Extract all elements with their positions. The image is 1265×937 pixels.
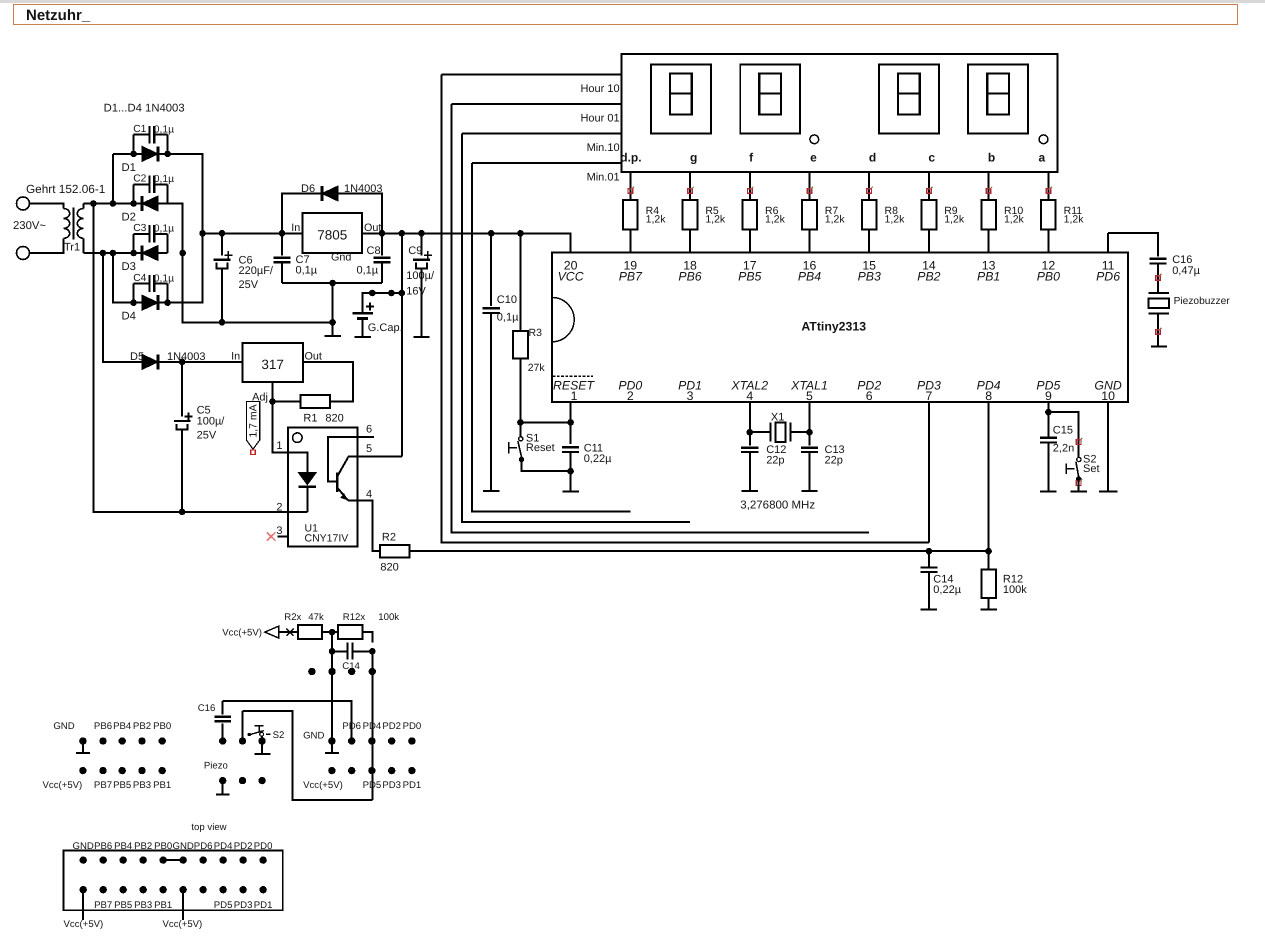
svg-text:GND: GND: [303, 730, 324, 741]
junction C10: [488, 230, 495, 237]
wire row D1: [134, 153, 168, 155]
svg-text:3: 3: [276, 525, 282, 537]
wire PD3 to bus: [928, 402, 930, 542]
junction 7805 output: [379, 230, 386, 237]
svg-text:C2: C2: [133, 174, 146, 185]
ground symbol S2: [1071, 479, 1087, 491]
capacitor C16 0,47µ: [1149, 254, 1200, 293]
wire bridge plus bus (D1/D4 cathodes): [168, 154, 203, 303]
capacitor C5 100µ/25V: [174, 362, 225, 512]
ground symbol piezo: [1151, 346, 1167, 348]
svg-text:G.Cap.: G.Cap.: [368, 322, 403, 334]
diode D5 1N4003: [130, 351, 242, 370]
svg-text:8: 8: [985, 389, 992, 403]
wire GND pin: [1107, 402, 1109, 491]
svg-text:D1...D4 1N4003: D1...D4 1N4003: [104, 103, 185, 115]
junction AC1-bus: [90, 200, 97, 207]
display dp circle right: [1039, 135, 1048, 144]
pin 17 PB5: [738, 259, 761, 284]
junction D5-C5: [179, 359, 186, 366]
opto pin 1 label: [276, 440, 282, 452]
top view labels lower PD: [214, 900, 273, 911]
wire AC2 rail: [84, 252, 142, 254]
svg-text:c: c: [928, 151, 935, 165]
connector mark piezo+: [1156, 274, 1162, 281]
svg-text:C16: C16: [198, 703, 216, 714]
pin 15 PB3: [858, 259, 881, 284]
svg-text:D4: D4: [122, 311, 136, 323]
wire display segment column c: [928, 172, 930, 252]
wire C14x right to PD5 pad: [371, 651, 373, 800]
svg-text:5: 5: [806, 389, 813, 403]
svg-text:4: 4: [746, 389, 753, 403]
wire PD2 bus: [451, 104, 869, 532]
svg-text:4: 4: [366, 489, 372, 501]
svg-text:PB3: PB3: [134, 900, 152, 911]
top gray strip: [0, 0, 1265, 3]
junction gnd rail: [329, 319, 336, 326]
svg-text:VCC: VCC: [558, 270, 584, 284]
svg-text:e: e: [810, 151, 817, 165]
connector mark d.p.: [628, 187, 634, 194]
connector mark b: [986, 187, 992, 194]
wire display segment column f: [749, 172, 751, 252]
label D1...D4 1N4003: [104, 103, 185, 115]
svg-text:Hour 10: Hour 10: [580, 83, 619, 95]
svg-text:D2: D2: [122, 212, 136, 224]
pin 9 PD5: [1036, 379, 1060, 404]
svg-text:PB3: PB3: [858, 270, 881, 284]
svg-text:820: 820: [325, 412, 343, 424]
svg-text:PB1: PB1: [154, 900, 172, 911]
label R12x 100k: [343, 612, 400, 623]
svg-text:Netzuhr_: Netzuhr_: [26, 7, 91, 24]
junction AC2-left: [100, 250, 107, 257]
transformer Tr1: [64, 204, 84, 254]
wire digit select Min.01: [472, 162, 622, 164]
PB header pads bottom: [79, 767, 166, 774]
svg-text:1,2k: 1,2k: [646, 214, 667, 226]
junction goldcap b: [388, 290, 395, 297]
svg-text:Gehrt 152.06-1: Gehrt 152.06-1: [26, 182, 105, 196]
IC U2 ATtiny2313: [552, 253, 1128, 403]
top view connector body: [63, 851, 282, 911]
resistor R2 820: [380, 532, 409, 574]
switch S2 (layout): [243, 711, 285, 741]
wire junction to C14x: [331, 632, 333, 651]
wire PD3 bus: [441, 74, 929, 542]
diode D2 1N4003: [122, 196, 159, 224]
junction C14 node: [926, 548, 933, 555]
wire regulator ground rail: [282, 283, 382, 322]
wire display segment column e: [808, 172, 810, 252]
svg-text:820: 820: [380, 562, 398, 574]
opto pin 4 wire: [348, 489, 380, 552]
svg-text:PD5: PD5: [214, 900, 233, 911]
svg-text:top view: top view: [191, 822, 226, 833]
resistor R8 1,2k: [862, 200, 905, 229]
svg-text:1: 1: [571, 389, 578, 403]
wire 317 adj: [273, 382, 301, 452]
connector mark S2 top: [1076, 438, 1082, 445]
svg-text:0,47µ: 0,47µ: [1172, 265, 1200, 277]
wire bridge AC bus D1-D2: [113, 154, 134, 204]
pin 16 PB4: [798, 259, 821, 284]
svg-text:g: g: [690, 151, 697, 165]
wire display segment column a: [1047, 172, 1049, 252]
junction R2x-R12x: [322, 629, 338, 636]
wire raw supply rail: [203, 233, 571, 252]
svg-text:Piezobuzzer: Piezobuzzer: [1174, 296, 1231, 307]
pin 7 PD3: [917, 379, 941, 404]
top view pads upper: [80, 856, 267, 863]
svg-text:1,2k: 1,2k: [765, 214, 786, 226]
wire PD1 bus: [462, 134, 690, 522]
pin 20 VCC: [558, 259, 584, 284]
svg-text:1,7 mA: 1,7 mA: [247, 404, 259, 437]
junction AC2-bridge: [110, 250, 117, 257]
svg-text:PD6: PD6: [1096, 270, 1120, 284]
svg-text:Vcc(+5V): Vcc(+5V): [43, 780, 83, 791]
capacitor C4 0,1µ (snubber of D4): [133, 273, 174, 303]
svg-text:In: In: [291, 222, 300, 234]
opto LED: [288, 452, 318, 512]
resistor R11 1,2k: [1041, 200, 1084, 229]
svg-text:R2: R2: [382, 532, 396, 544]
top view pads lower: [80, 886, 267, 893]
resistor R2x: [298, 625, 322, 639]
svg-text:22p: 22p: [825, 454, 843, 466]
labels PD6 PD4 PD2 PD0: [342, 721, 421, 732]
connector mark a: [1046, 187, 1052, 194]
pin 3 PD1: [678, 379, 702, 404]
wire PD0 bus: [472, 163, 630, 512]
junction C6: [219, 230, 226, 237]
connector mark d: [867, 187, 873, 194]
svg-text:PD4: PD4: [363, 721, 382, 732]
wire digit select Min.10: [462, 133, 622, 135]
capacitor C10 0,1µ: [483, 233, 519, 491]
label Hour 10: [580, 83, 619, 95]
svg-text:C4: C4: [133, 273, 146, 284]
labels PB7 PB5 PB3 PB1: [94, 780, 171, 791]
junction C5 gnd node: [179, 509, 186, 516]
svg-text:Piezo: Piezo: [204, 761, 228, 772]
pin 19 PB7: [619, 259, 643, 284]
wire display segment column g: [689, 172, 691, 252]
svg-text:PB1: PB1: [977, 270, 1000, 284]
svg-text:PB5: PB5: [113, 780, 131, 791]
capacitor C8 0,1µ: [357, 233, 391, 283]
junction C14x right: [369, 648, 376, 655]
connector mark S2 bottom: [1076, 479, 1082, 486]
svg-text:PD2: PD2: [382, 721, 401, 732]
svg-text:230V~: 230V~: [13, 220, 46, 232]
wire R2 to PD4 node: [409, 550, 988, 552]
PD header pads bottom: [328, 767, 415, 774]
svg-text:X1: X1: [771, 411, 784, 423]
capacitor C14 (layout): [332, 643, 372, 672]
svg-text:0,1µ: 0,1µ: [357, 265, 379, 277]
svg-text:PB0: PB0: [1037, 270, 1060, 284]
capacitor C9 100µ/16V: [406, 233, 435, 336]
junction R12 node: [985, 548, 992, 555]
junction XTAL1: [806, 429, 813, 436]
diode D1 1N4003: [122, 146, 159, 174]
label C16 (layout): [198, 703, 216, 714]
svg-text:7805: 7805: [317, 227, 347, 242]
svg-text:PD1: PD1: [403, 780, 422, 791]
svg-text:Reset: Reset: [526, 442, 555, 454]
svg-text:R1: R1: [303, 412, 317, 424]
svg-text:PB2: PB2: [133, 721, 151, 732]
junction R3: [517, 230, 524, 237]
svg-text:0,22µ: 0,22µ: [584, 453, 612, 465]
capacitor C14 0,22µ: [920, 551, 961, 609]
svg-text:D6: D6: [301, 183, 315, 195]
wire S2 loop to PD5 pad: [243, 711, 373, 800]
crystal X1: [750, 411, 810, 442]
svg-text:D1: D1: [122, 162, 136, 174]
svg-text:R3: R3: [529, 327, 543, 339]
svg-text:6: 6: [866, 389, 873, 403]
wire 317 out to R1: [303, 362, 353, 402]
connector mark f: [747, 187, 753, 194]
wire AC2 to D5: [103, 253, 142, 362]
svg-text:2: 2: [276, 502, 282, 514]
wire display segment column d: [868, 172, 870, 252]
ground symbol 7805 gnd: [324, 322, 340, 336]
svg-text:7: 7: [925, 389, 932, 403]
top view Vcc stub right: [163, 890, 203, 930]
wire bridge AC bus D3-D4: [113, 253, 134, 303]
svg-text:100µ/: 100µ/: [197, 415, 226, 427]
connector mark c: [927, 187, 933, 194]
svg-text:25V: 25V: [239, 279, 259, 291]
svg-text:PB5: PB5: [114, 900, 132, 911]
svg-text:Tr1: Tr1: [64, 242, 80, 254]
resistor R1 820: [300, 395, 343, 424]
svg-text:D5: D5: [130, 351, 144, 363]
regulator 7805: [291, 213, 381, 264]
svg-text:ATtiny2313: ATtiny2313: [801, 319, 866, 333]
junction C14x left: [329, 648, 336, 655]
diode D6 1N4003 (bypass): [282, 183, 383, 234]
svg-text:Vcc(+5V): Vcc(+5V): [163, 919, 203, 930]
svg-text:1N4003: 1N4003: [344, 183, 383, 195]
svg-text:1,2k: 1,2k: [1004, 214, 1025, 226]
label Vcc(+5V) (PD block): [303, 780, 343, 791]
svg-text:Out: Out: [364, 222, 381, 234]
resistor R7 1,2k: [802, 200, 845, 229]
capacitor C6 220µF/25V: [214, 233, 274, 322]
svg-text:C15: C15: [1053, 425, 1073, 437]
title frame: [14, 5, 1238, 25]
svg-text:0,22µ: 0,22µ: [933, 584, 961, 596]
svg-text:Gnd: Gnd: [331, 252, 351, 264]
svg-text:PB5: PB5: [738, 270, 761, 284]
wire digit select Hour 10: [441, 73, 621, 75]
junction AC1-bridge: [110, 200, 117, 207]
svg-text:Set: Set: [1083, 463, 1100, 475]
optocoupler U1 CNY17IV body: [288, 427, 358, 546]
svg-text:a: a: [1038, 151, 1045, 165]
wire primary top: [30, 204, 64, 209]
junction +9V branch: [399, 230, 406, 237]
svg-text:3,276800 MHz: 3,276800 MHz: [740, 500, 815, 512]
svg-text:100k: 100k: [1003, 584, 1027, 596]
pad row upper: [308, 668, 376, 675]
svg-text:1N4003: 1N4003: [167, 351, 206, 363]
svg-text:0,1µ: 0,1µ: [154, 174, 174, 185]
pin 14 PB2: [917, 259, 940, 284]
svg-text:R2x: R2x: [284, 612, 301, 623]
svg-text:47k: 47k: [308, 612, 324, 623]
junction goldcap c: [399, 290, 406, 297]
svg-text:10: 10: [1101, 389, 1115, 403]
capacitor C1 0,1µ (snubber of D1): [133, 124, 174, 154]
svg-text:In: In: [231, 351, 240, 363]
svg-text:1,2k: 1,2k: [705, 214, 726, 226]
wire PD5 node: [1048, 402, 1078, 458]
top view labels lower PB: [94, 900, 172, 911]
middle pad row (GND..): [219, 737, 266, 744]
capacitor C7 0,1µ: [274, 233, 318, 283]
resistor R9 1,2k: [922, 200, 965, 229]
pin 18 PB6: [678, 259, 701, 284]
svg-text:Min.10: Min.10: [587, 142, 620, 154]
wire digit select Hour 01: [451, 103, 621, 105]
junction 7805 input: [279, 230, 286, 237]
svg-text:PB2: PB2: [917, 270, 940, 284]
label Adj: [252, 391, 268, 403]
ground symbol PD block: [325, 741, 339, 753]
wire PD6 to piezobuzzer: [1108, 233, 1158, 256]
label 230V~: [13, 220, 46, 232]
junction S1 top: [517, 419, 524, 426]
pin 6 PD2: [857, 379, 881, 404]
svg-text:PB1: PB1: [153, 780, 171, 791]
label Hour 01: [580, 113, 619, 125]
svg-text:GND: GND: [53, 721, 74, 732]
opto pin 3 stub (n.c.): [267, 525, 288, 541]
svg-text:PB6: PB6: [678, 270, 701, 284]
pin 11 PD6: [1096, 259, 1120, 284]
switch S2 Set: [1066, 454, 1099, 482]
label Gehrt 152.06-1: [26, 182, 105, 196]
svg-text:Min.01: Min.01: [587, 171, 620, 183]
wire C16 to PD6 pad: [223, 701, 352, 741]
pin 10 GND: [1094, 379, 1121, 404]
svg-text:6: 6: [366, 424, 372, 436]
junction reset pin: [567, 419, 574, 426]
switch S1 Reset: [509, 422, 555, 462]
svg-text:D3: D3: [122, 261, 136, 273]
svg-text:PB7: PB7: [94, 900, 112, 911]
PD header pads top: [328, 737, 415, 744]
svg-text:1,2k: 1,2k: [944, 214, 965, 226]
svg-text:5: 5: [366, 443, 372, 455]
capacitor C2 0,1µ (snubber of D2): [133, 174, 174, 204]
ground symbol GND pin: [1099, 490, 1117, 492]
svg-text:22p: 22p: [766, 454, 784, 466]
wire R12x to PD4 column: [362, 632, 372, 642]
svg-text:PD3: PD3: [382, 780, 401, 791]
wire row D3: [134, 252, 168, 254]
svg-text:3: 3: [687, 389, 694, 403]
ground symbol PB block: [76, 741, 90, 753]
svg-text:C9: C9: [408, 245, 422, 257]
wire reset node: [520, 402, 570, 444]
svg-text:Out: Out: [305, 351, 322, 363]
pin 8 PD4: [977, 379, 1001, 404]
pin 4 XTAL2: [730, 379, 768, 404]
svg-text:PD0: PD0: [403, 721, 422, 732]
capacitor C12 22p: [741, 444, 786, 491]
display dp circle left: [810, 135, 819, 144]
connector mark e: [807, 187, 813, 194]
opto pin 2 wire: [93, 204, 307, 512]
ground symbol piezo pad: [216, 781, 230, 795]
PB header pads top: [79, 737, 166, 744]
svg-text:1,2k: 1,2k: [1064, 214, 1085, 226]
svg-text:Vcc(+5V): Vcc(+5V): [303, 780, 343, 791]
svg-text:Hour 01: Hour 01: [580, 113, 619, 125]
label Min.01: [587, 171, 620, 183]
junction D4 right: [164, 299, 171, 306]
wire S1 bottom to C11: [522, 460, 571, 472]
junction D3 anode to minus bus: [179, 250, 186, 257]
pin 13 PB1: [977, 259, 1000, 284]
ground symbol C11: [562, 471, 578, 491]
pin 12 PB0: [1037, 259, 1060, 284]
svg-text:PB6: PB6: [94, 721, 112, 732]
svg-text:2,2n: 2,2n: [1053, 442, 1074, 454]
svg-text:100µ/: 100µ/: [406, 270, 435, 282]
wire display segment column d.p.: [629, 172, 631, 252]
junction regulator gnd: [329, 280, 336, 287]
svg-text:R12x: R12x: [343, 612, 366, 623]
pin 2 PD0: [618, 379, 642, 404]
svg-text:C8: C8: [367, 245, 381, 257]
wire AC1 rail: [84, 203, 142, 205]
junction C11 bottom: [567, 468, 574, 475]
wire C14x left to GND pad: [331, 651, 333, 741]
terminal 230V top: [17, 197, 30, 210]
svg-text:S2: S2: [273, 730, 285, 741]
junction C6 ground: [219, 319, 226, 326]
junction PD5: [1045, 409, 1052, 416]
svg-text:C1: C1: [133, 124, 146, 135]
label GND (PB block): [53, 721, 74, 732]
resistor R12x: [338, 625, 362, 639]
label top view: [191, 822, 226, 833]
capacitor C13 22p: [801, 444, 845, 491]
svg-text:PD6: PD6: [342, 721, 361, 732]
wire S2 right contact to ground: [254, 736, 270, 754]
capacitor C15 2,2n: [1040, 425, 1074, 492]
wire bridge minus bus (D2/D3 anodes): [168, 204, 333, 323]
opto transistor: [328, 437, 374, 500]
svg-text:Vcc(+5V): Vcc(+5V): [222, 628, 262, 639]
svg-text:PD1: PD1: [254, 900, 273, 911]
wire XTAL1: [808, 402, 810, 446]
junction D1 right: [164, 151, 171, 158]
wire primary bottom: [30, 238, 64, 253]
label Piezo: [204, 761, 228, 772]
connector mark piezo-: [1156, 328, 1162, 335]
connector mark g: [688, 187, 694, 194]
